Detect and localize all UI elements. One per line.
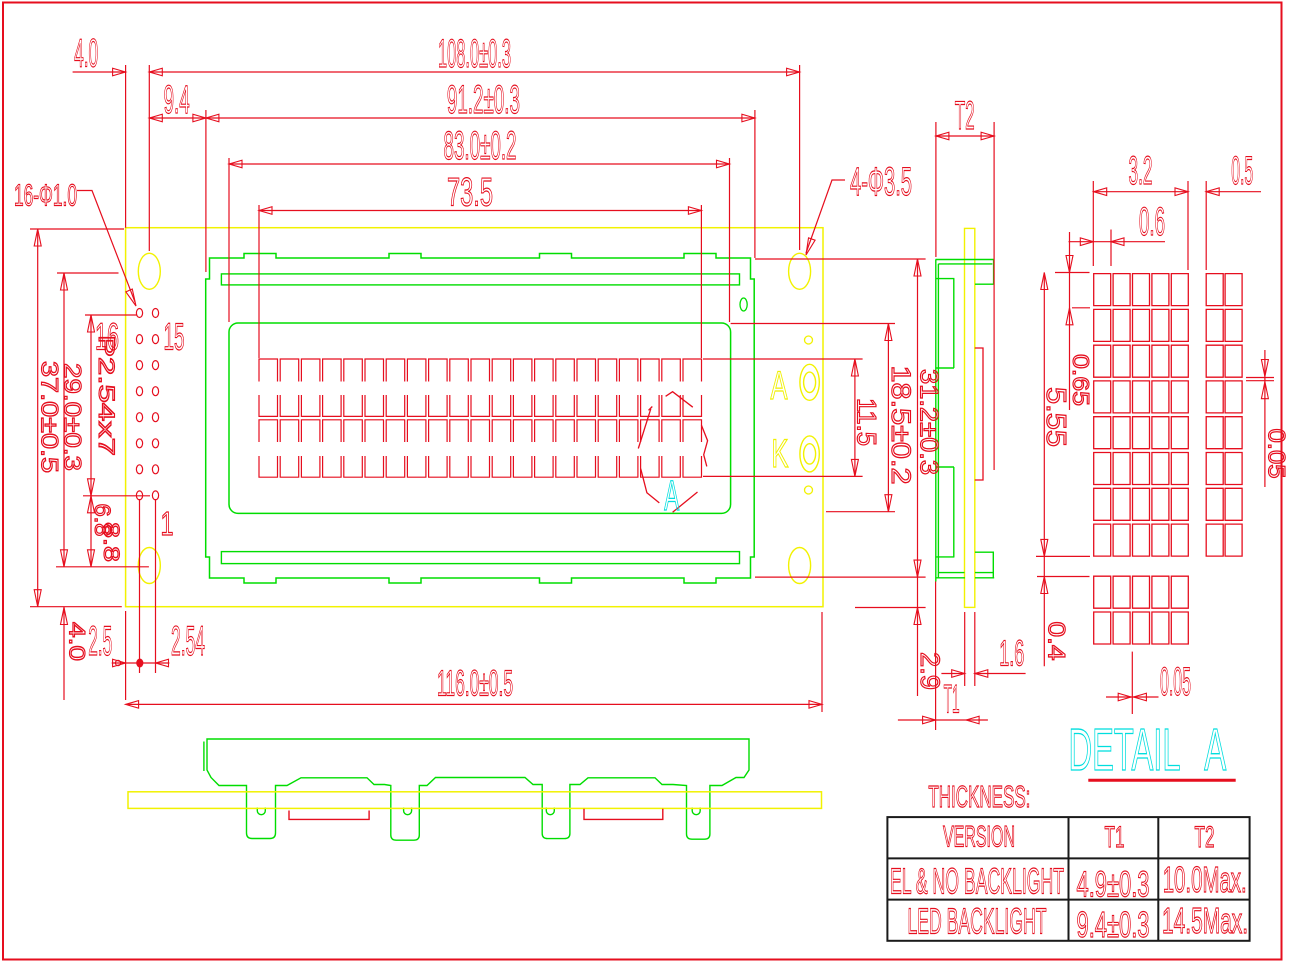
svg-text:T1: T1 <box>944 678 960 722</box>
mounting hole bottom-right <box>789 548 811 584</box>
dot matrix detail: main 5x8 grid <box>1094 274 1189 556</box>
display window <box>229 323 731 513</box>
mounting hole top-left <box>138 253 160 289</box>
dim 83.0 line <box>229 163 730 165</box>
svg-text:18.5±0.2: 18.5±0.2 <box>886 366 916 485</box>
frame outer wall <box>935 260 937 582</box>
frame bottom inner line <box>938 572 993 574</box>
svg-text:T1: T1 <box>1105 821 1125 854</box>
svg-text:DETAIL: DETAIL <box>1069 717 1181 783</box>
dim 29.0 line <box>63 273 65 567</box>
svg-text:0.6: 0.6 <box>1139 200 1165 244</box>
dot matrix detail: right 2x8 group <box>1206 274 1242 556</box>
svg-text:9.4: 9.4 <box>164 78 190 122</box>
svg-text:15: 15 <box>164 317 185 359</box>
bottom view left edge step line <box>203 742 205 772</box>
LCD bezel outline with mounting tabs <box>206 254 755 584</box>
svg-text:14.5Max.: 14.5Max. <box>1162 900 1248 941</box>
svg-text:THICKNESS:: THICKNESS: <box>928 779 1030 814</box>
dim 0.65 <box>1069 232 1071 410</box>
frame side profile <box>936 260 995 582</box>
svg-text:4.0: 4.0 <box>65 622 90 661</box>
svg-text:4-Φ3.5: 4-Φ3.5 <box>850 160 912 204</box>
PCB outline (front view) <box>126 228 823 607</box>
svg-text:T2: T2 <box>955 94 975 138</box>
backlight opening 1 (red) <box>289 811 369 820</box>
svg-text:VERSION: VERSION <box>943 821 1015 854</box>
pin holes 2x8 <box>136 309 158 500</box>
svg-text:LED BACKLIGHT: LED BACKLIGHT <box>908 900 1047 941</box>
mounting hole bottom-left <box>138 548 160 584</box>
dim 2.9 line <box>917 577 919 696</box>
svg-text:11.5: 11.5 <box>852 398 882 446</box>
dim 3.2 <box>1094 191 1188 193</box>
dim 116.0 line <box>821 612 823 712</box>
svg-text:2.5: 2.5 <box>88 617 112 664</box>
svg-text:16-Φ1.0: 16-Φ1.0 <box>14 178 77 213</box>
svg-text:9.4±0.3: 9.4±0.3 <box>1077 904 1150 945</box>
svg-text:T2: T2 <box>1195 821 1215 854</box>
dim 0.05 bottom <box>1131 652 1133 714</box>
frame top edge <box>936 260 994 285</box>
svg-text:1.6: 1.6 <box>999 633 1024 674</box>
dim 108.0 line <box>149 71 799 73</box>
dim 18.5 line <box>887 324 889 512</box>
svg-text:P2.54x7: P2.54x7 <box>94 335 119 456</box>
PCB bar (bottom view) <box>128 792 822 809</box>
svg-text:0.4: 0.4 <box>1043 622 1070 661</box>
svg-text:2.54: 2.54 <box>171 617 205 664</box>
svg-text:73.5: 73.5 <box>447 171 493 215</box>
dim 0.05 right <box>1246 377 1274 379</box>
detail A dims <box>1092 181 1094 266</box>
svg-text:4.9±0.3: 4.9±0.3 <box>1077 864 1150 905</box>
mounting hole top-right <box>789 253 811 289</box>
dim 1.6 <box>964 612 966 686</box>
frame bottom tab <box>975 552 993 578</box>
backlight pad K <box>800 436 819 472</box>
detail balloon sketch <box>638 392 707 513</box>
thickness table borders <box>887 817 1249 941</box>
svg-text:37.0±0.5: 37.0±0.5 <box>36 361 63 473</box>
svg-text:3.2: 3.2 <box>1129 149 1153 193</box>
dim T1 <box>935 582 937 731</box>
character cells row 2 <box>259 420 702 477</box>
frame profile (bottom view) <box>207 739 749 840</box>
dim 0.5 <box>1206 191 1261 193</box>
detail grid ref ticks <box>1055 272 1090 274</box>
glass bottom section <box>936 467 955 557</box>
dim 4.0 line <box>73 71 126 73</box>
backlight pad A <box>800 364 819 400</box>
title underline <box>1088 779 1235 782</box>
svg-text:A: A <box>664 472 679 520</box>
glass top section <box>936 279 955 368</box>
bezel top inner bar <box>221 274 739 285</box>
small hole above pad A <box>805 336 813 344</box>
svg-text:A: A <box>771 364 788 408</box>
PCB edge (side view) <box>965 228 975 607</box>
dim 0.6 <box>1069 241 1166 243</box>
backlight opening 2 (red) <box>584 809 663 820</box>
svg-text:0.05: 0.05 <box>1263 429 1290 479</box>
backlight edge (red bracket) <box>975 348 983 480</box>
dim 2.5 / 2.54 bottom <box>125 611 127 700</box>
pin crimp hooks <box>257 808 700 815</box>
svg-text:8.8: 8.8 <box>99 522 124 562</box>
svg-text:1: 1 <box>161 505 174 542</box>
svg-text:EL & NO BACKLIGHT: EL & NO BACKLIGHT <box>890 861 1064 902</box>
svg-text:10.0Max.: 10.0Max. <box>1163 859 1247 900</box>
svg-text:0.5: 0.5 <box>1231 149 1253 193</box>
frame bottom edge <box>936 577 995 579</box>
svg-text:2.9: 2.9 <box>915 652 945 690</box>
dim 37.0 line <box>37 229 39 607</box>
dim 11.5 line <box>854 359 856 476</box>
small circle in bezel top-right <box>740 298 747 311</box>
svg-text:0.65: 0.65 <box>1068 354 1094 406</box>
dim 4.0 bottom line <box>63 607 65 700</box>
frame top inner line <box>938 263 992 265</box>
small hole below pad K <box>805 486 813 494</box>
svg-text:83.0±0.2: 83.0±0.2 <box>444 124 517 168</box>
svg-text:0.05: 0.05 <box>1160 660 1191 704</box>
svg-text:31.2±0.3: 31.2±0.3 <box>915 369 943 475</box>
dim 73.5 line <box>259 210 701 212</box>
svg-text:116.0±0.5: 116.0±0.5 <box>437 663 513 704</box>
dot matrix detail: lower 5x2 group <box>1094 576 1189 644</box>
svg-text:5.55: 5.55 <box>1041 387 1072 447</box>
svg-text:108.0±0.3: 108.0±0.3 <box>438 32 511 76</box>
left reference ticks <box>30 228 124 230</box>
character cells row 1 <box>259 359 702 416</box>
svg-text:29.0±0.3: 29.0±0.3 <box>59 363 86 471</box>
svg-text:91.2±0.3: 91.2±0.3 <box>447 78 520 122</box>
right side reference lines <box>755 258 926 260</box>
dim P2.54x7 line <box>90 315 92 567</box>
dim 9.4 / 91.2 line <box>149 117 755 119</box>
dim 31.2 line <box>917 259 919 577</box>
dim 5.55 / 0.4 line <box>1043 273 1045 667</box>
svg-text:4.0: 4.0 <box>74 32 98 76</box>
bezel bottom inner bar <box>221 552 739 564</box>
top extension lines <box>125 65 127 228</box>
svg-text:K: K <box>772 432 789 476</box>
svg-text:A: A <box>1204 717 1226 783</box>
frame inner wall <box>937 264 939 578</box>
